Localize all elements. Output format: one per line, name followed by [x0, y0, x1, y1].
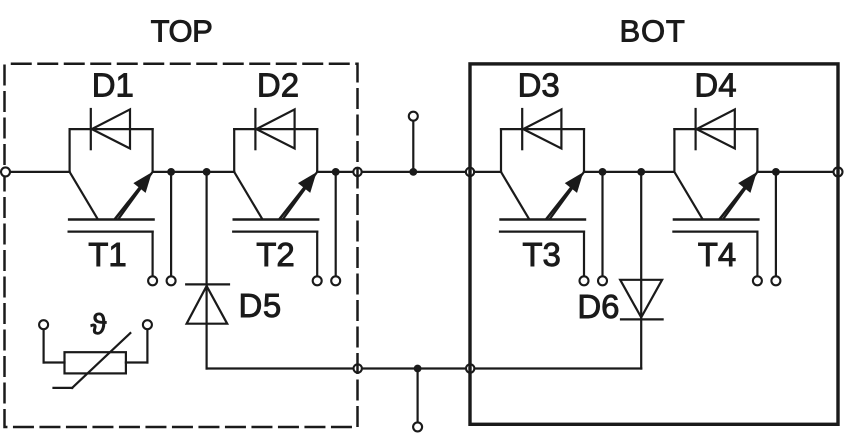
- transistor T3: [500, 129, 585, 277]
- wire main bus: T1 to T2: [153, 171, 235, 173]
- auxiliary emitter terminal T4: [771, 276, 780, 285]
- diode D2: [255, 109, 294, 149]
- wire main bus: TOP border to BOT border: [362, 171, 466, 173]
- terminal bottom (DC-): [413, 422, 422, 431]
- terminal top (AC): [409, 112, 418, 121]
- svg-text:T2: T2: [256, 236, 295, 273]
- diode D4: [696, 109, 735, 149]
- auxiliary emitter wire T3: [601, 172, 603, 276]
- wire D6 vertical: [640, 172, 642, 369]
- svg-text:D6: D6: [577, 288, 619, 325]
- svg-text:ϑ: ϑ: [91, 309, 107, 341]
- TOP module dashed border: [5, 64, 358, 427]
- transistor T1: [69, 129, 154, 277]
- node aux T1: [167, 168, 175, 176]
- auxiliary emitter wire T1: [170, 172, 172, 276]
- diode D1: [91, 109, 130, 149]
- wire top terminal riser: [412, 121, 414, 172]
- diode D5: [186, 284, 229, 323]
- gate terminal T1: [148, 276, 157, 285]
- gate terminal T3: [580, 276, 589, 285]
- wire main bus: left terminal to T1: [6, 171, 70, 173]
- terminal thermistor right: [143, 320, 152, 329]
- terminal bottom bus at TOP border: [354, 364, 362, 372]
- transistor T2: [233, 129, 318, 277]
- thermistor R (NTC) body: [54, 333, 131, 388]
- svg-text:T1: T1: [88, 236, 127, 273]
- auxiliary emitter wire T2: [335, 172, 337, 276]
- node top riser: [409, 168, 417, 176]
- svg-text:D1: D1: [92, 67, 134, 104]
- wire bottom bus: BOT border to D6: [475, 367, 642, 369]
- transistor T4: [673, 129, 758, 277]
- wire main bus: T2 to TOP border: [317, 171, 353, 173]
- wire bottom bus: D5 to TOP border: [207, 367, 354, 369]
- terminal main right: [834, 167, 843, 176]
- gate terminal T4: [753, 276, 762, 285]
- svg-text:D4: D4: [694, 67, 736, 104]
- gate terminal T2: [313, 276, 322, 285]
- BOT module solid border: [470, 64, 838, 424]
- node D5 top: [203, 168, 211, 176]
- wire main bus: T4 to right border: [757, 171, 833, 173]
- terminal thermistor left: [39, 320, 48, 329]
- svg-text:T4: T4: [698, 236, 737, 273]
- auxiliary emitter terminal T3: [598, 276, 607, 285]
- svg-text:TOP: TOP: [151, 14, 213, 49]
- auxiliary emitter terminal T1: [167, 276, 176, 285]
- diode D6: [620, 280, 662, 320]
- node aux T2: [332, 168, 340, 176]
- node aux T3: [599, 168, 607, 176]
- thermistor leads: [44, 329, 148, 362]
- terminal main bus at BOT border: [466, 168, 474, 176]
- terminal bottom bus at BOT border: [466, 364, 474, 372]
- svg-text:D3: D3: [518, 67, 560, 104]
- svg-text:BOT: BOT: [620, 14, 686, 49]
- auxiliary emitter wire T4: [775, 172, 777, 276]
- svg-text:T3: T3: [522, 236, 561, 273]
- terminal main bus at TOP border: [353, 168, 361, 176]
- wire D5 vertical: [206, 172, 208, 369]
- node aux T4: [772, 168, 780, 176]
- node D6 top: [637, 168, 645, 176]
- terminal main left: [1, 167, 10, 176]
- wire main bus: BOT border to T3: [474, 171, 501, 173]
- wire main bus: T3 to T4: [584, 171, 674, 173]
- node bottom riser: [414, 365, 422, 373]
- auxiliary emitter terminal T2: [331, 276, 340, 285]
- svg-text:D2: D2: [257, 67, 299, 104]
- svg-text:D5: D5: [239, 287, 282, 324]
- diode D3: [522, 109, 561, 149]
- wire bottom terminal riser: [417, 369, 419, 423]
- wire bottom bus: TOP border to BOT border: [362, 367, 466, 369]
